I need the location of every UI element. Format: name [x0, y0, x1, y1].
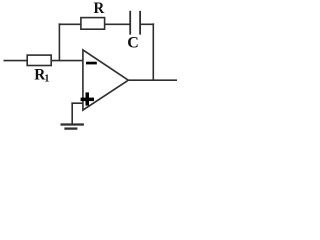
svg-text:1: 1 [44, 73, 49, 84]
svg-text:R: R [94, 0, 106, 17]
svg-text:C: C [127, 35, 139, 52]
